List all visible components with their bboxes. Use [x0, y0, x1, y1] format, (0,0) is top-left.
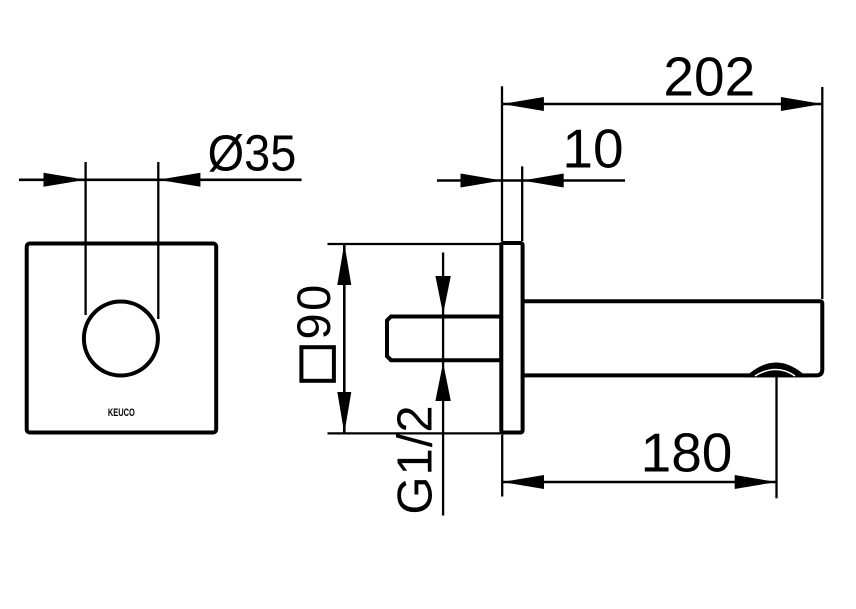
dim Ø35 extension line left: [84, 162, 86, 315]
dim Ø35 dimension line: [19, 179, 302, 182]
dim 202 arrow right: [781, 97, 822, 111]
side view wall plate: [501, 243, 522, 433]
svg-text:Ø35: Ø35: [208, 126, 297, 182]
dim 180 dimension line: [502, 481, 776, 484]
svg-text:202: 202: [663, 45, 755, 107]
side view G1/2 connection nipple: [387, 317, 501, 361]
dim Ø35 label: [208, 126, 297, 182]
dim 180 arrow left: [502, 475, 544, 489]
dim G1/2 arrow top: [435, 276, 450, 314]
dim 10 extension line right: [521, 166, 523, 241]
dim 90 arrow top: [337, 244, 351, 286]
dim 90 dimension line: [343, 244, 346, 433]
dim 202 arrow left: [502, 97, 544, 111]
dim 180 arrow right: [735, 475, 777, 489]
dim 10 arrow left: [461, 174, 503, 188]
svg-text:180: 180: [641, 421, 733, 483]
dim 202 dimension line: [502, 103, 822, 106]
svg-text:G1/2: G1/2: [389, 404, 443, 514]
dim G1/2 dimension line: [442, 253, 444, 516]
dim 202 extension line right: [821, 87, 823, 299]
dim 90 extension line bottom: [328, 432, 502, 434]
dim Ø35 arrow left: [44, 173, 86, 187]
dim Ø35 arrow right: [158, 173, 200, 187]
dim 10 arrow right: [522, 174, 564, 188]
dim G1/2 arrow bottom: [435, 363, 450, 401]
dim 10 dimension line: [437, 179, 625, 182]
svg-text:KEUCO: KEUCO: [108, 405, 135, 418]
dim 180 extension line left: [501, 435, 503, 497]
dim 90 extension line top: [328, 243, 502, 245]
dim 90 arrow bottom: [337, 392, 351, 434]
svg-text:90: 90: [287, 282, 340, 339]
aerator bump on spout underside: [745, 363, 807, 378]
front view square escutcheon plate: [27, 244, 217, 433]
svg-text:10: 10: [562, 117, 623, 179]
KEUCO logo text: [108, 405, 135, 418]
dim Ø35 extension line right: [157, 162, 159, 319]
square-section symbol: [301, 347, 334, 381]
front view circle (spout outlet): [84, 302, 158, 376]
side view spout body: [520, 301, 822, 375]
aerator inner white arc: [755, 370, 795, 376]
dim 202 extension line left: [501, 86, 503, 241]
dim 180 extension line right: [775, 377, 777, 498]
